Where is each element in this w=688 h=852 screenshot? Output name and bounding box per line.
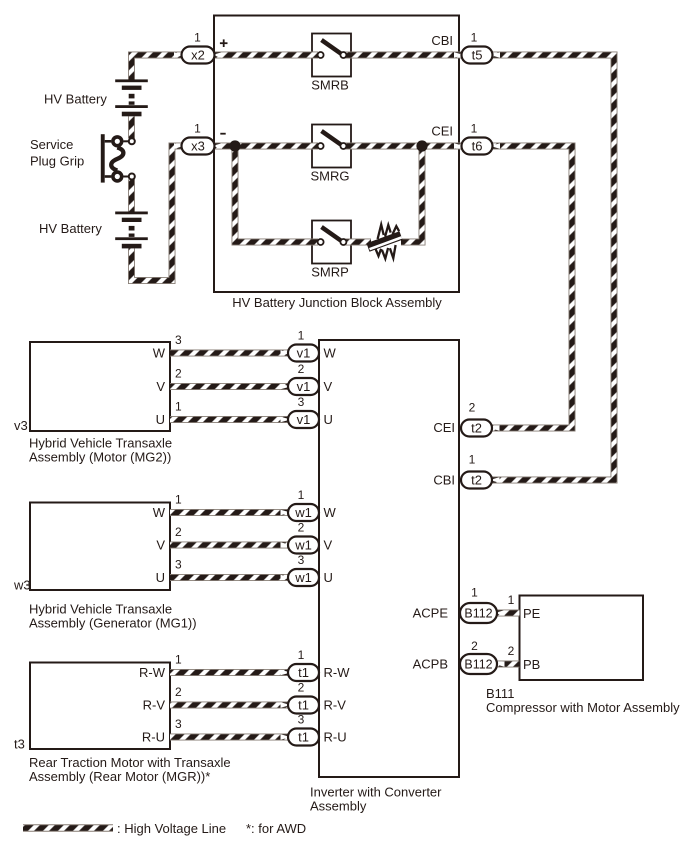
wire node to SMRP precharge branch left	[235, 146, 318, 242]
MG1 transaxle assembly box w3	[13, 503, 197, 631]
svg-text:Hybrid Vehicle Transaxle: Hybrid Vehicle Transaxle	[29, 602, 172, 617]
svg-text:: High Voltage Line: : High Voltage Line	[117, 821, 226, 836]
plus sign	[220, 39, 228, 47]
wire MG2 phase 1	[170, 350, 288, 357]
svg-text:V: V	[156, 379, 165, 394]
svg-text:3: 3	[298, 713, 305, 727]
svg-text:CEI: CEI	[433, 420, 455, 435]
svg-text:Assembly (Motor (MG2)): Assembly (Motor (MG2))	[29, 450, 171, 465]
relay SMRG contacts	[311, 131, 350, 184]
svg-text:3: 3	[298, 553, 305, 567]
svg-text:PB: PB	[523, 657, 540, 672]
svg-text:w1: w1	[294, 570, 312, 585]
wire B112 to compressor PE	[497, 610, 520, 617]
Compressor with Motor Assembly box B111	[486, 596, 680, 716]
wire MG2 phase 2	[170, 383, 288, 390]
svg-text:B111: B111	[486, 686, 514, 701]
svg-text:t1: t1	[298, 730, 309, 745]
wire t6 CEI to t2 CEI	[492, 146, 573, 428]
connector x3	[182, 122, 215, 155]
svg-text:ACPE: ACPE	[413, 606, 449, 621]
svg-text:Assembly (Generator (MG1)): Assembly (Generator (MG1))	[29, 616, 197, 631]
svg-text:HV Battery Junction Block Asse: HV Battery Junction Block Assembly	[232, 295, 442, 310]
svg-text:CBI: CBI	[431, 33, 453, 48]
svg-text:V: V	[156, 538, 165, 553]
svg-text:SMRB: SMRB	[311, 78, 349, 93]
connector B112 ACPE	[413, 586, 541, 624]
svg-text:CBI: CBI	[433, 473, 455, 488]
svg-text:Service: Service	[30, 137, 73, 152]
svg-text:1: 1	[194, 31, 201, 45]
svg-text:t6: t6	[472, 139, 483, 154]
wire MG1 phase 3	[170, 574, 288, 581]
svg-text:x2: x2	[191, 48, 205, 63]
svg-text:1: 1	[471, 586, 478, 600]
wire MGR phase 1	[170, 669, 288, 676]
connector t5 CBI	[431, 31, 492, 64]
svg-text:t5: t5	[472, 48, 483, 63]
svg-text:1: 1	[471, 31, 478, 45]
junction node left of SMRG	[229, 140, 240, 151]
svg-text:W: W	[153, 505, 166, 520]
wire MGR phase 3	[170, 734, 288, 741]
HV battery 1	[115, 79, 148, 116]
svg-text:1: 1	[194, 122, 201, 136]
SMRP relay box	[312, 221, 351, 264]
wire SMRP to resistor	[346, 239, 372, 246]
svg-text:ACPB: ACPB	[413, 657, 448, 672]
svg-text:Assembly: Assembly	[310, 799, 367, 814]
wire x3 to SMRG	[215, 143, 319, 150]
connector v1 phase W	[153, 329, 337, 362]
svg-text:V: V	[324, 379, 333, 394]
connector x2	[182, 31, 215, 64]
legend high voltage line sample	[23, 821, 226, 836]
wire MGR phase 2	[170, 702, 288, 709]
svg-text:w1: w1	[294, 505, 312, 520]
Rear motor MGR assembly box t3	[14, 663, 231, 785]
HV Battery Junction Block Assembly box	[214, 16, 459, 311]
svg-text:Compressor with Motor Assembly: Compressor with Motor Assembly	[486, 700, 680, 715]
svg-text:2: 2	[175, 367, 182, 381]
wire HV battery 2 negative to x3	[132, 146, 182, 281]
wire service plug to HV battery 2	[128, 179, 135, 211]
svg-text:Inverter with Converter: Inverter with Converter	[310, 785, 442, 800]
svg-text:HV Battery: HV Battery	[39, 221, 102, 236]
connector B112 ACPB	[413, 639, 541, 674]
svg-text:U: U	[156, 570, 165, 585]
wire SMRB to t5	[346, 52, 463, 59]
connector w1 phase U	[156, 553, 333, 586]
svg-text:CEI: CEI	[431, 123, 453, 138]
svg-text:v1: v1	[297, 412, 311, 427]
svg-text:2: 2	[298, 521, 305, 535]
svg-text:v1: v1	[297, 346, 311, 361]
service plug grip	[101, 134, 135, 182]
svg-text:3: 3	[175, 333, 182, 347]
svg-text:3: 3	[298, 395, 305, 409]
wire SMRG to t6	[346, 143, 463, 150]
svg-text:1: 1	[175, 400, 182, 414]
SMRB relay box	[312, 34, 351, 77]
svg-text:R-V: R-V	[143, 698, 166, 713]
connector t1 phase R-W	[139, 648, 350, 681]
svg-text:1: 1	[175, 493, 182, 507]
svg-text:3: 3	[175, 558, 182, 572]
wire taper wedges at connectors	[174, 52, 505, 739]
svg-text:2: 2	[298, 681, 305, 695]
svg-text:3: 3	[175, 717, 182, 731]
svg-text:2: 2	[175, 685, 182, 699]
svg-text:1: 1	[508, 593, 515, 607]
wire MG1 phase 2	[170, 542, 288, 549]
svg-text:W: W	[324, 505, 337, 520]
svg-text:B112: B112	[464, 607, 492, 621]
svg-text:R-W: R-W	[139, 665, 166, 680]
svg-text:w1: w1	[294, 538, 312, 553]
wire HV battery 1 to service plug	[128, 116, 135, 138]
svg-text:t3: t3	[14, 737, 25, 752]
svg-text:2: 2	[471, 639, 478, 653]
MG2 transaxle assembly box v3	[14, 342, 172, 465]
relay SMRB contacts	[311, 40, 349, 93]
svg-text:1: 1	[298, 648, 305, 662]
wire x2 to SMRB	[215, 52, 319, 59]
wire B112 to compressor PB	[497, 661, 520, 668]
svg-text:U: U	[324, 412, 333, 427]
svg-text:1: 1	[298, 329, 305, 343]
svg-text:2: 2	[469, 401, 476, 415]
connector t2 CEI	[433, 401, 492, 437]
svg-text:U: U	[324, 570, 333, 585]
connector w1 phase V	[156, 521, 332, 554]
wire x2 to HV battery positive	[132, 55, 182, 80]
svg-text:Rear Traction Motor with Trans: Rear Traction Motor with Transaxle	[29, 755, 231, 770]
svg-text:x3: x3	[191, 139, 205, 154]
svg-text:t2: t2	[471, 421, 482, 436]
svg-text:SMRG: SMRG	[311, 169, 350, 184]
svg-text:2: 2	[298, 362, 305, 376]
svg-text:1: 1	[175, 653, 182, 667]
svg-text:1: 1	[298, 488, 305, 502]
svg-text:v3: v3	[14, 418, 28, 433]
svg-text:SMRP: SMRP	[311, 265, 349, 280]
svg-text:*: for AWD: *: for AWD	[246, 821, 306, 836]
svg-text:Assembly (Rear Motor (MGR))*: Assembly (Rear Motor (MGR))*	[29, 769, 210, 784]
svg-text:v1: v1	[297, 379, 311, 394]
svg-text:Hybrid Vehicle Transaxle: Hybrid Vehicle Transaxle	[29, 436, 172, 451]
svg-text:V: V	[324, 538, 333, 553]
Inverter with Converter Assembly box	[310, 340, 459, 814]
svg-text:R-U: R-U	[324, 730, 347, 745]
svg-text:R-W: R-W	[324, 665, 351, 680]
svg-text:R-U: R-U	[142, 730, 165, 745]
svg-text:W: W	[324, 346, 337, 361]
HV battery 2	[115, 212, 148, 249]
svg-text:W: W	[153, 346, 166, 361]
svg-text:PE: PE	[523, 606, 541, 621]
relay SMRP contacts	[311, 227, 349, 280]
connector v1 phase U	[156, 395, 333, 428]
svg-text:1: 1	[471, 122, 478, 136]
svg-text:R-V: R-V	[324, 698, 347, 713]
svg-text:t1: t1	[298, 665, 309, 680]
svg-text:w3: w3	[13, 578, 31, 593]
precharge resistor	[367, 225, 403, 259]
junction node right of SMRG	[416, 140, 427, 151]
SMRG relay box	[312, 125, 351, 168]
svg-text:t2: t2	[471, 473, 482, 488]
svg-text:U: U	[156, 412, 165, 427]
label Service Plug Grip	[30, 137, 84, 169]
wire resistor to node right	[401, 146, 422, 242]
connector t6 CEI	[431, 122, 492, 155]
connector t1 phase R-U	[142, 713, 347, 746]
svg-text:HV Battery: HV Battery	[44, 92, 107, 107]
svg-text:Plug Grip: Plug Grip	[30, 154, 84, 169]
svg-text:B112: B112	[464, 658, 492, 672]
minus sign	[220, 133, 225, 135]
connector t2 CBI	[433, 453, 492, 489]
svg-text:2: 2	[175, 525, 182, 539]
wire MG1 phase 1	[170, 509, 288, 516]
svg-text:2: 2	[508, 644, 515, 658]
connector t1 phase R-V	[143, 681, 347, 714]
connector w1 phase W	[153, 488, 337, 521]
svg-text:1: 1	[469, 453, 476, 467]
wire MG2 phase 3	[170, 416, 288, 423]
connector v1 phase V	[156, 362, 332, 395]
svg-text:t1: t1	[298, 698, 309, 713]
wire t5 CBI to t2 CBI	[492, 55, 615, 480]
